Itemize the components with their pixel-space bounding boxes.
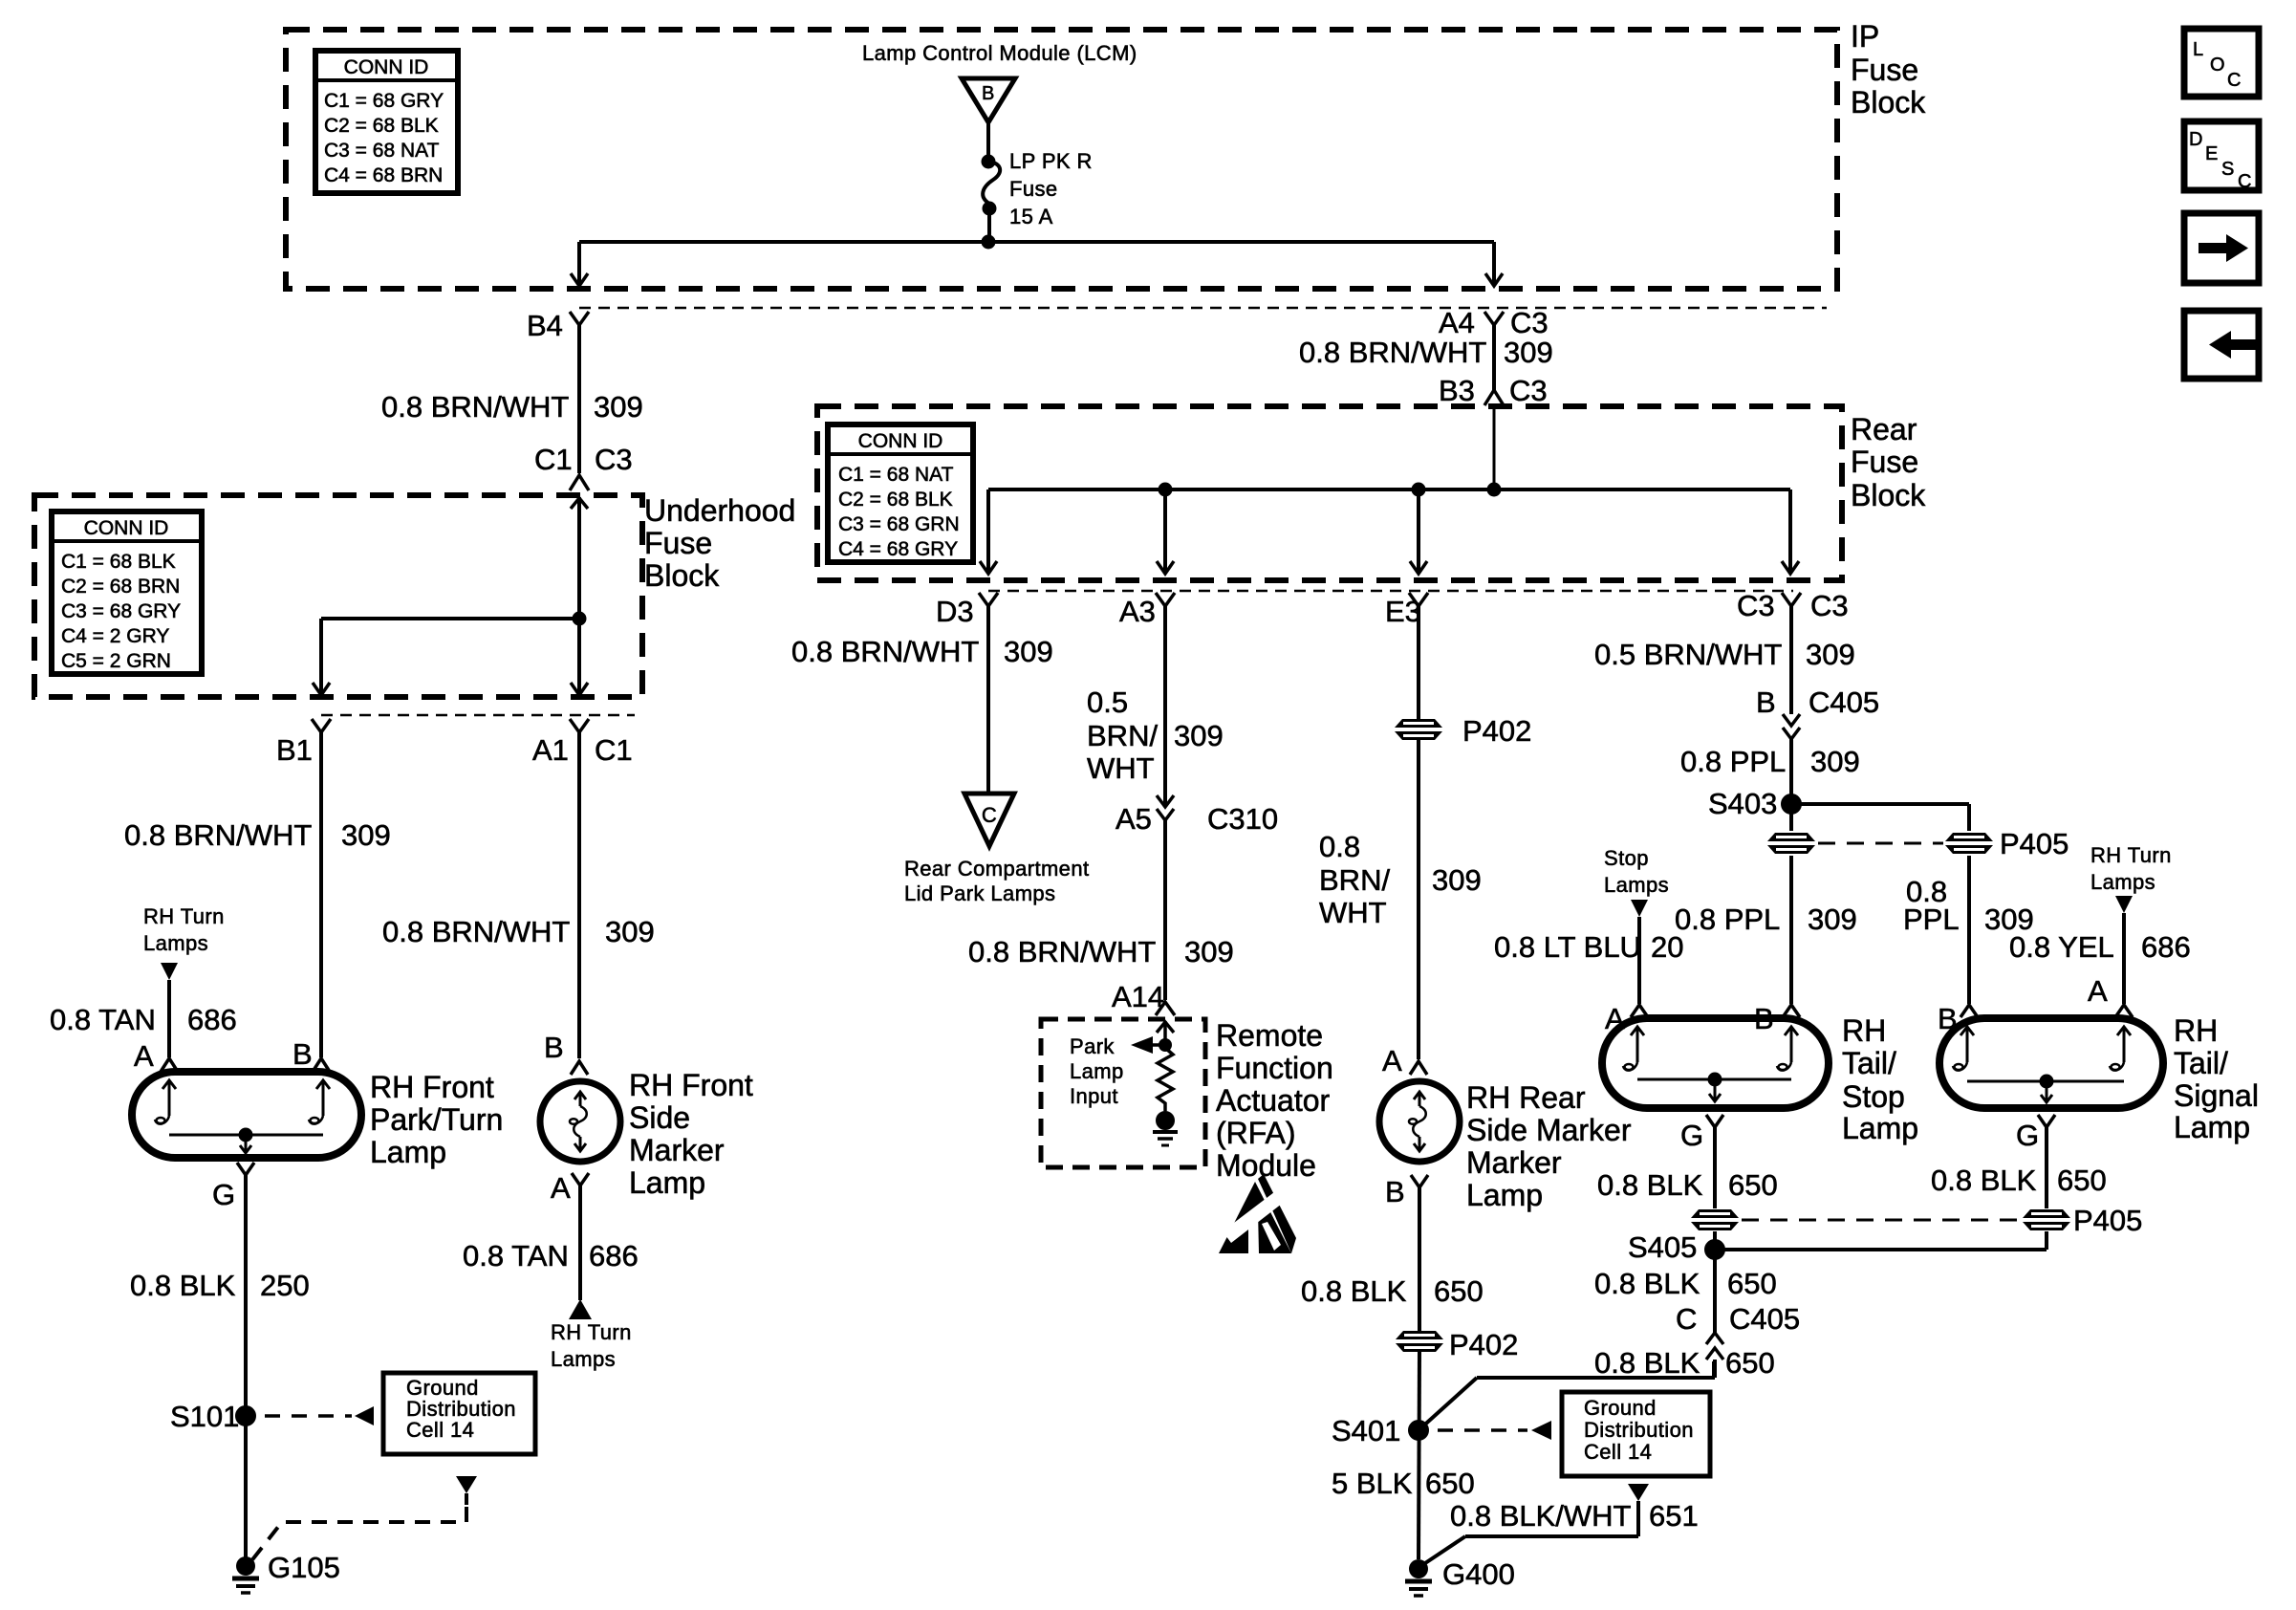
svg-text:Remote: Remote <box>1216 1018 1323 1053</box>
svg-text:0.8 BLK: 0.8 BLK <box>130 1269 236 1302</box>
svg-text:B4: B4 <box>527 309 563 342</box>
svg-text:S: S <box>2221 159 2234 180</box>
svg-text:0.8 TAN: 0.8 TAN <box>463 1239 569 1273</box>
svg-text:Tail/: Tail/ <box>1842 1046 1896 1080</box>
svg-text:Fuse: Fuse <box>644 526 712 560</box>
svg-text:650: 650 <box>1727 1267 1777 1300</box>
svg-text:C3 = 68 GRN: C3 = 68 GRN <box>838 513 960 535</box>
svg-text:Lamp: Lamp <box>1842 1111 1918 1145</box>
svg-text:Park/Turn: Park/Turn <box>370 1102 503 1137</box>
svg-text:C1: C1 <box>534 443 573 476</box>
svg-text:A: A <box>551 1171 571 1205</box>
svg-text:A1: A1 <box>532 733 569 767</box>
svg-text:0.8 BRN/WHT: 0.8 BRN/WHT <box>968 935 1156 968</box>
svg-text:C2 = 68 BLK: C2 = 68 BLK <box>838 489 953 511</box>
svg-text:B: B <box>1756 685 1776 719</box>
svg-text:RH Front: RH Front <box>370 1070 494 1104</box>
svg-text:C2 = 68 BRN: C2 = 68 BRN <box>61 576 180 598</box>
svg-text:A: A <box>134 1039 154 1073</box>
svg-text:651: 651 <box>1649 1499 1699 1533</box>
svg-text:C3: C3 <box>1810 589 1849 622</box>
svg-text:C2 = 68 BLK: C2 = 68 BLK <box>324 115 439 137</box>
svg-text:WHT: WHT <box>1319 896 1387 929</box>
svg-text:Lamp: Lamp <box>1070 1059 1124 1083</box>
svg-text:Lamp: Lamp <box>629 1165 705 1200</box>
svg-text:A: A <box>1605 1002 1625 1035</box>
svg-text:C4 = 68 GRY: C4 = 68 GRY <box>838 538 958 560</box>
svg-text:(RFA): (RFA) <box>1216 1116 1296 1150</box>
svg-text:0.8 BLK: 0.8 BLK <box>1594 1267 1700 1300</box>
svg-text:Lamps: Lamps <box>551 1347 616 1371</box>
svg-text:650: 650 <box>2057 1164 2107 1197</box>
svg-text:0.8 YEL: 0.8 YEL <box>2009 930 2114 964</box>
svg-text:Side: Side <box>629 1100 690 1135</box>
svg-text:LP PK R: LP PK R <box>1009 149 1093 173</box>
svg-text:C1 = 68 GRY: C1 = 68 GRY <box>324 90 444 112</box>
svg-text:Function: Function <box>1216 1051 1333 1085</box>
svg-text:650: 650 <box>1725 1346 1775 1380</box>
svg-text:Block: Block <box>1851 478 1926 512</box>
svg-text:C3 = 68 NAT: C3 = 68 NAT <box>324 140 440 162</box>
svg-text:BRN/: BRN/ <box>1087 719 1158 752</box>
svg-text:A: A <box>1382 1044 1402 1077</box>
svg-text:E3: E3 <box>1385 595 1421 628</box>
svg-text:Marker: Marker <box>629 1133 725 1167</box>
svg-text:RH Turn: RH Turn <box>2090 843 2172 867</box>
svg-text:B: B <box>1938 1002 1958 1035</box>
svg-text:C310: C310 <box>1207 802 1278 836</box>
svg-text:Rear: Rear <box>1851 412 1917 446</box>
svg-text:0.8 BLK: 0.8 BLK <box>1594 1346 1700 1380</box>
svg-text:A14: A14 <box>1112 980 1164 1013</box>
svg-text:0.8: 0.8 <box>1319 830 1360 863</box>
svg-text:S101: S101 <box>170 1400 239 1433</box>
svg-text:0.8 BLK/WHT: 0.8 BLK/WHT <box>1450 1499 1632 1533</box>
svg-text:309: 309 <box>1806 638 1855 671</box>
svg-text:Park: Park <box>1070 1034 1115 1058</box>
svg-text:C: C <box>982 803 997 827</box>
svg-text:309: 309 <box>1184 935 1234 968</box>
svg-text:309: 309 <box>605 915 655 948</box>
svg-text:A5: A5 <box>1116 802 1152 836</box>
svg-text:686: 686 <box>589 1239 639 1273</box>
svg-text:C: C <box>1676 1302 1697 1336</box>
svg-text:B3: B3 <box>1439 374 1475 407</box>
svg-text:650: 650 <box>1434 1274 1484 1308</box>
svg-text:0.8 BRN/WHT: 0.8 BRN/WHT <box>1299 336 1486 369</box>
svg-text:Lamps: Lamps <box>143 931 208 955</box>
svg-text:RH Turn: RH Turn <box>143 904 225 928</box>
svg-text:309: 309 <box>594 390 643 424</box>
svg-text:G: G <box>1680 1119 1703 1152</box>
svg-text:E: E <box>2205 143 2218 164</box>
svg-text:Actuator: Actuator <box>1216 1083 1331 1118</box>
svg-text:Lamps: Lamps <box>1604 873 1669 897</box>
svg-text:CONN ID: CONN ID <box>344 56 429 78</box>
svg-text:Block: Block <box>644 558 720 593</box>
svg-text:309: 309 <box>1808 903 1857 936</box>
svg-text:RH: RH <box>2174 1013 2218 1048</box>
svg-text:0.8 BLK: 0.8 BLK <box>1301 1274 1407 1308</box>
svg-text:0.8 BRN/WHT: 0.8 BRN/WHT <box>124 818 312 852</box>
svg-text:B1: B1 <box>276 733 313 767</box>
svg-text:Ground: Ground <box>1584 1396 1657 1420</box>
svg-text:C3: C3 <box>1509 374 1548 407</box>
svg-text:PPL: PPL <box>1903 903 1960 936</box>
svg-text:5 BLK: 5 BLK <box>1332 1467 1413 1500</box>
svg-text:Cell 14: Cell 14 <box>1584 1440 1652 1464</box>
svg-text:Cell 14: Cell 14 <box>406 1418 474 1442</box>
svg-text:C4 = 68 BRN: C4 = 68 BRN <box>324 164 443 186</box>
svg-text:20: 20 <box>1651 930 1683 964</box>
svg-text:G105: G105 <box>268 1551 340 1584</box>
svg-text:309: 309 <box>1174 719 1224 752</box>
svg-text:CONN ID: CONN ID <box>84 517 169 539</box>
svg-text:650: 650 <box>1425 1467 1475 1500</box>
svg-text:S401: S401 <box>1332 1414 1400 1447</box>
svg-text:250: 250 <box>260 1269 310 1302</box>
svg-text:B: B <box>1385 1175 1405 1208</box>
svg-text:0.8 BRN/WHT: 0.8 BRN/WHT <box>381 390 569 424</box>
svg-text:C4 = 2 GRY: C4 = 2 GRY <box>61 625 169 647</box>
svg-text:RH Front: RH Front <box>629 1068 753 1102</box>
svg-text:P402: P402 <box>1449 1328 1518 1361</box>
svg-text:C1: C1 <box>595 733 633 767</box>
svg-text:15 A: 15 A <box>1009 205 1053 228</box>
svg-text:Marker: Marker <box>1466 1145 1562 1180</box>
svg-text:C3: C3 <box>1510 306 1549 339</box>
svg-text:Side Marker: Side Marker <box>1466 1113 1632 1147</box>
svg-text:Lid Park Lamps: Lid Park Lamps <box>904 881 1055 905</box>
svg-text:C405: C405 <box>1809 685 1879 719</box>
svg-text:A: A <box>2088 974 2108 1008</box>
svg-text:0.8 LT BLU: 0.8 LT BLU <box>1494 930 1641 964</box>
svg-text:RH Turn: RH Turn <box>551 1320 632 1344</box>
svg-text:C405: C405 <box>1729 1302 1800 1336</box>
svg-text:Block: Block <box>1851 85 1926 120</box>
svg-text:L: L <box>2193 39 2203 60</box>
svg-text:G400: G400 <box>1442 1557 1515 1591</box>
svg-text:A4: A4 <box>1439 306 1475 339</box>
svg-text:650: 650 <box>1728 1168 1778 1202</box>
svg-text:G: G <box>2016 1119 2039 1152</box>
svg-text:D3: D3 <box>936 595 974 628</box>
svg-text:S403: S403 <box>1708 787 1777 820</box>
svg-text:C: C <box>2238 171 2251 192</box>
svg-text:C1 = 68 BLK: C1 = 68 BLK <box>61 551 176 573</box>
svg-text:309: 309 <box>1004 635 1053 668</box>
svg-text:Lamp: Lamp <box>370 1135 446 1169</box>
svg-text:Lamp Control Module (LCM): Lamp Control Module (LCM) <box>862 41 1137 65</box>
svg-text:686: 686 <box>187 1003 237 1036</box>
svg-text:Lamps: Lamps <box>2090 870 2155 894</box>
svg-text:C: C <box>2227 70 2241 91</box>
svg-text:Fuse: Fuse <box>1851 53 1918 87</box>
svg-text:BRN/: BRN/ <box>1319 863 1390 897</box>
svg-text:0.5 BRN/WHT: 0.5 BRN/WHT <box>1594 638 1782 671</box>
svg-text:Stop: Stop <box>1842 1079 1905 1114</box>
svg-text:686: 686 <box>2141 930 2191 964</box>
svg-text:0.8 BRN/WHT: 0.8 BRN/WHT <box>791 635 979 668</box>
svg-text:Stop: Stop <box>1604 846 1649 870</box>
svg-text:RH Rear: RH Rear <box>1466 1080 1586 1115</box>
svg-text:0.8 BRN/WHT: 0.8 BRN/WHT <box>382 915 570 948</box>
svg-text:Lamp: Lamp <box>1466 1178 1543 1212</box>
svg-text:C5 = 2 GRN: C5 = 2 GRN <box>61 650 171 672</box>
svg-text:P402: P402 <box>1462 714 1531 748</box>
svg-text:Fuse: Fuse <box>1009 177 1058 201</box>
svg-text:0.8 BLK: 0.8 BLK <box>1931 1164 2037 1197</box>
svg-text:0.8 PPL: 0.8 PPL <box>1675 903 1780 936</box>
svg-text:Distribution: Distribution <box>1584 1418 1694 1442</box>
svg-text:B: B <box>292 1037 313 1071</box>
svg-text:P405: P405 <box>2000 827 2069 860</box>
svg-text:309: 309 <box>1810 745 1860 778</box>
svg-text:Tail/: Tail/ <box>2174 1046 2228 1080</box>
svg-text:Input: Input <box>1070 1084 1118 1108</box>
svg-text:C1 = 68 NAT: C1 = 68 NAT <box>838 464 954 486</box>
svg-text:P405: P405 <box>2073 1204 2142 1237</box>
svg-text:RH: RH <box>1842 1013 1886 1048</box>
svg-text:C3 = 68 GRY: C3 = 68 GRY <box>61 600 181 622</box>
svg-text:D: D <box>2189 129 2202 150</box>
svg-text:309: 309 <box>341 818 391 852</box>
svg-text:Signal: Signal <box>2174 1078 2259 1113</box>
svg-text:WHT: WHT <box>1087 751 1155 785</box>
svg-text:A3: A3 <box>1119 595 1156 628</box>
svg-text:309: 309 <box>1504 336 1553 369</box>
svg-text:CONN ID: CONN ID <box>858 430 943 452</box>
svg-text:B: B <box>982 83 994 104</box>
svg-text:0.5: 0.5 <box>1087 685 1128 719</box>
svg-text:309: 309 <box>1432 863 1482 897</box>
svg-text:IP: IP <box>1851 19 1879 54</box>
svg-text:Module: Module <box>1216 1148 1316 1183</box>
svg-text:0.8 TAN: 0.8 TAN <box>50 1003 156 1036</box>
svg-text:B: B <box>1754 1002 1774 1035</box>
svg-text:0.8 BLK: 0.8 BLK <box>1597 1168 1703 1202</box>
svg-text:0.8 PPL: 0.8 PPL <box>1680 745 1786 778</box>
svg-text:B: B <box>544 1031 564 1064</box>
svg-text:O: O <box>2210 54 2225 76</box>
svg-text:G: G <box>212 1178 235 1211</box>
svg-text:S405: S405 <box>1628 1230 1697 1264</box>
svg-text:C3: C3 <box>1737 589 1775 622</box>
svg-text:Lamp: Lamp <box>2174 1110 2250 1144</box>
svg-text:Fuse: Fuse <box>1851 445 1918 479</box>
svg-text:Rear Compartment: Rear Compartment <box>904 857 1089 881</box>
svg-text:Underhood: Underhood <box>644 493 795 528</box>
svg-text:C3: C3 <box>595 443 633 476</box>
